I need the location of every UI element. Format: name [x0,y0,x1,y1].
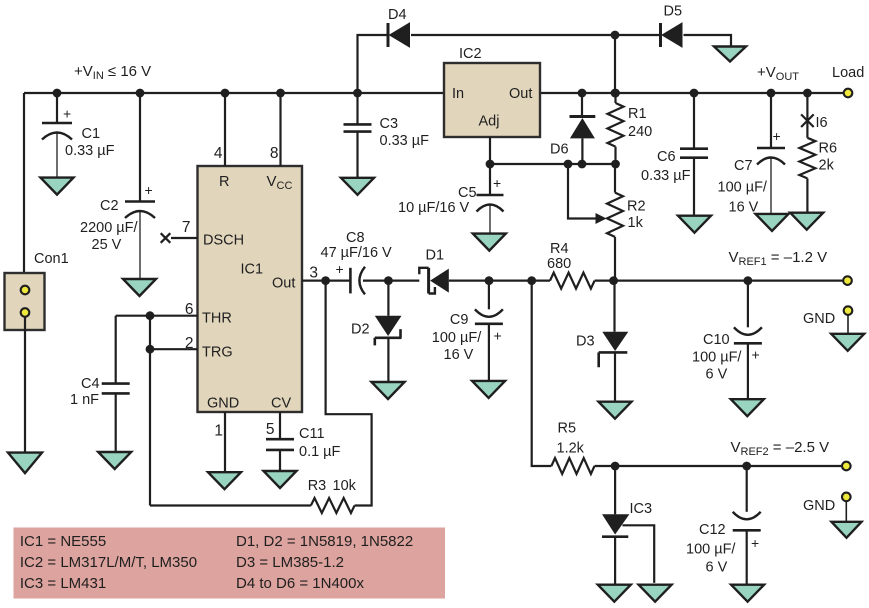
svg-text:0.33 µF: 0.33 µF [380,133,430,149]
svg-text:0.1 µF: 0.1 µF [299,444,341,460]
svg-text:100 µF/: 100 µF/ [692,350,742,366]
svg-text:C11: C11 [299,426,325,442]
svg-text:1 nF: 1 nF [70,392,99,408]
svg-text:IC1: IC1 [241,262,264,278]
svg-text:+: + [752,347,760,363]
svg-text:+: + [145,182,153,198]
svg-text:25 V: 25 V [92,237,122,253]
svg-text:Out: Out [509,86,532,102]
svg-text:10 µF/16 V: 10 µF/16 V [398,200,470,216]
svg-text:D4 to D6 = 1N400x: D4 to D6 = 1N400x [236,575,364,592]
svg-text:Adj: Adj [479,114,500,130]
svg-text:C5: C5 [458,185,477,201]
svg-text:GND: GND [803,498,835,514]
svg-text:THR: THR [202,311,232,327]
svg-text:100 µF/: 100 µF/ [718,180,768,196]
svg-text:1: 1 [214,423,223,440]
svg-text:6 V: 6 V [706,367,728,383]
svg-text:C8: C8 [346,230,365,246]
svg-text:GND: GND [207,396,239,412]
svg-text:C10: C10 [703,332,730,348]
svg-text:1.2k: 1.2k [557,441,585,457]
svg-text:C7: C7 [734,158,753,174]
svg-text:D6: D6 [550,142,569,158]
svg-text:I6: I6 [816,115,828,131]
svg-text:4: 4 [214,145,223,162]
svg-text:+VIN ≤ 16 V: +VIN ≤ 16 V [74,63,151,82]
svg-text:1k: 1k [628,215,644,231]
svg-text:TRG: TRG [202,345,233,361]
svg-text:R3: R3 [308,478,327,494]
svg-text:+: + [773,128,781,144]
svg-text:C4: C4 [81,376,100,392]
svg-text:D5: D5 [664,4,683,20]
svg-text:CV: CV [271,396,291,412]
svg-text:IC1 = NE555: IC1 = NE555 [20,533,106,550]
svg-text:3: 3 [309,265,318,282]
svg-text:R1: R1 [628,106,647,122]
svg-text:In: In [452,86,464,102]
svg-text:7: 7 [182,219,191,236]
svg-text:Con1: Con1 [34,251,69,267]
svg-text:10k: 10k [333,478,357,494]
svg-text:IC2 = LM317L/M/T, LM350: IC2 = LM317L/M/T, LM350 [20,554,197,571]
svg-text:680: 680 [547,256,571,272]
svg-text:R6: R6 [819,141,838,157]
svg-text:+: + [336,261,344,277]
svg-text:IC2: IC2 [459,46,482,62]
svg-text:Out: Out [272,276,295,292]
svg-text:DSCH: DSCH [203,233,244,249]
svg-text:D1, D2 = 1N5819, 1N5822: D1, D2 = 1N5819, 1N5822 [236,533,413,550]
svg-text:2200 µF/: 2200 µF/ [80,220,138,236]
svg-text:Load: Load [832,65,864,81]
svg-text:IC3 = LM431: IC3 = LM431 [20,575,106,592]
svg-text:16 V: 16 V [444,347,474,363]
svg-text:C12: C12 [699,522,726,538]
svg-text:0.33 µF: 0.33 µF [65,143,115,159]
svg-text:C2: C2 [100,198,119,214]
svg-text:C9: C9 [450,312,469,328]
svg-text:+: + [63,106,71,122]
svg-text:6 V: 6 V [706,560,728,576]
svg-text:R: R [219,174,229,190]
svg-text:GND: GND [803,311,835,327]
svg-text:C1: C1 [82,126,101,142]
svg-text:5: 5 [266,421,275,438]
svg-text:D3 = LM385-1.2: D3 = LM385-1.2 [236,554,344,571]
svg-text:C3: C3 [380,116,399,132]
svg-text:8: 8 [270,145,279,162]
svg-text:100 µF/: 100 µF/ [432,330,482,346]
svg-text:D4: D4 [388,7,407,23]
svg-text:240: 240 [628,124,652,140]
svg-text:+: + [494,328,502,344]
svg-text:+: + [751,535,759,551]
svg-text:R4: R4 [550,241,569,257]
svg-text:C6: C6 [657,149,676,165]
svg-text:+: + [493,175,501,191]
svg-text:D1: D1 [426,248,445,264]
svg-text:R5: R5 [558,421,577,437]
svg-text:16 V: 16 V [729,200,759,216]
svg-text:0.33 µF: 0.33 µF [641,168,691,184]
svg-text:100 µF/: 100 µF/ [686,542,736,558]
svg-text:R2: R2 [627,199,646,215]
svg-text:2k: 2k [819,158,835,174]
svg-text:D3: D3 [576,334,595,350]
svg-text:IC3: IC3 [630,501,653,517]
svg-text:D2: D2 [351,322,370,338]
svg-text:47 µF/16 V: 47 µF/16 V [321,245,393,261]
